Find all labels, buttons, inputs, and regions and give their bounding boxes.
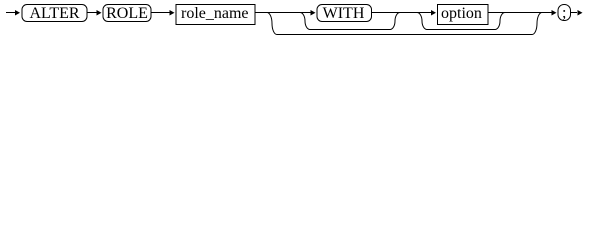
keyword box WITH — [317, 5, 372, 23]
arrowhead into ALTER — [15, 10, 20, 15]
terminal box semicolon — [558, 5, 571, 22]
arrowhead into ROLE — [97, 10, 102, 15]
wire outer repeat loop — [267, 13, 542, 35]
svg-text:role_name: role_name — [181, 5, 249, 22]
wire WITH to option arrow — [372, 12, 432, 14]
svg-text:ROLE: ROLE — [106, 5, 148, 22]
wire ROLE to role_name — [151, 12, 170, 14]
wire exit line — [571, 12, 578, 14]
svg-text:WITH: WITH — [323, 5, 365, 22]
nonterminal box option — [438, 5, 489, 25]
arrowhead exit — [578, 10, 583, 15]
svg-text:;: ; — [562, 5, 566, 22]
wire ALTER to ROLE — [87, 12, 97, 14]
wire WITH bypass loop — [300, 13, 400, 30]
wire entry line — [6, 12, 15, 14]
nonterminal box role_name — [176, 5, 255, 25]
background — [0, 0, 601, 44]
keyword box ALTER — [22, 5, 87, 23]
keyword box ROLE — [103, 5, 151, 23]
arrowhead into role_name — [170, 10, 175, 15]
arrowhead into option — [431, 10, 436, 15]
wire option to semicolon — [488, 12, 552, 14]
arrowhead into WITH — [311, 10, 316, 15]
wire role_name to WITH arrow — [255, 12, 311, 14]
svg-text:ALTER: ALTER — [29, 5, 79, 22]
wire option bypass loop — [417, 13, 505, 30]
svg-text:option: option — [441, 5, 482, 22]
arrowhead into semicolon — [552, 10, 557, 15]
